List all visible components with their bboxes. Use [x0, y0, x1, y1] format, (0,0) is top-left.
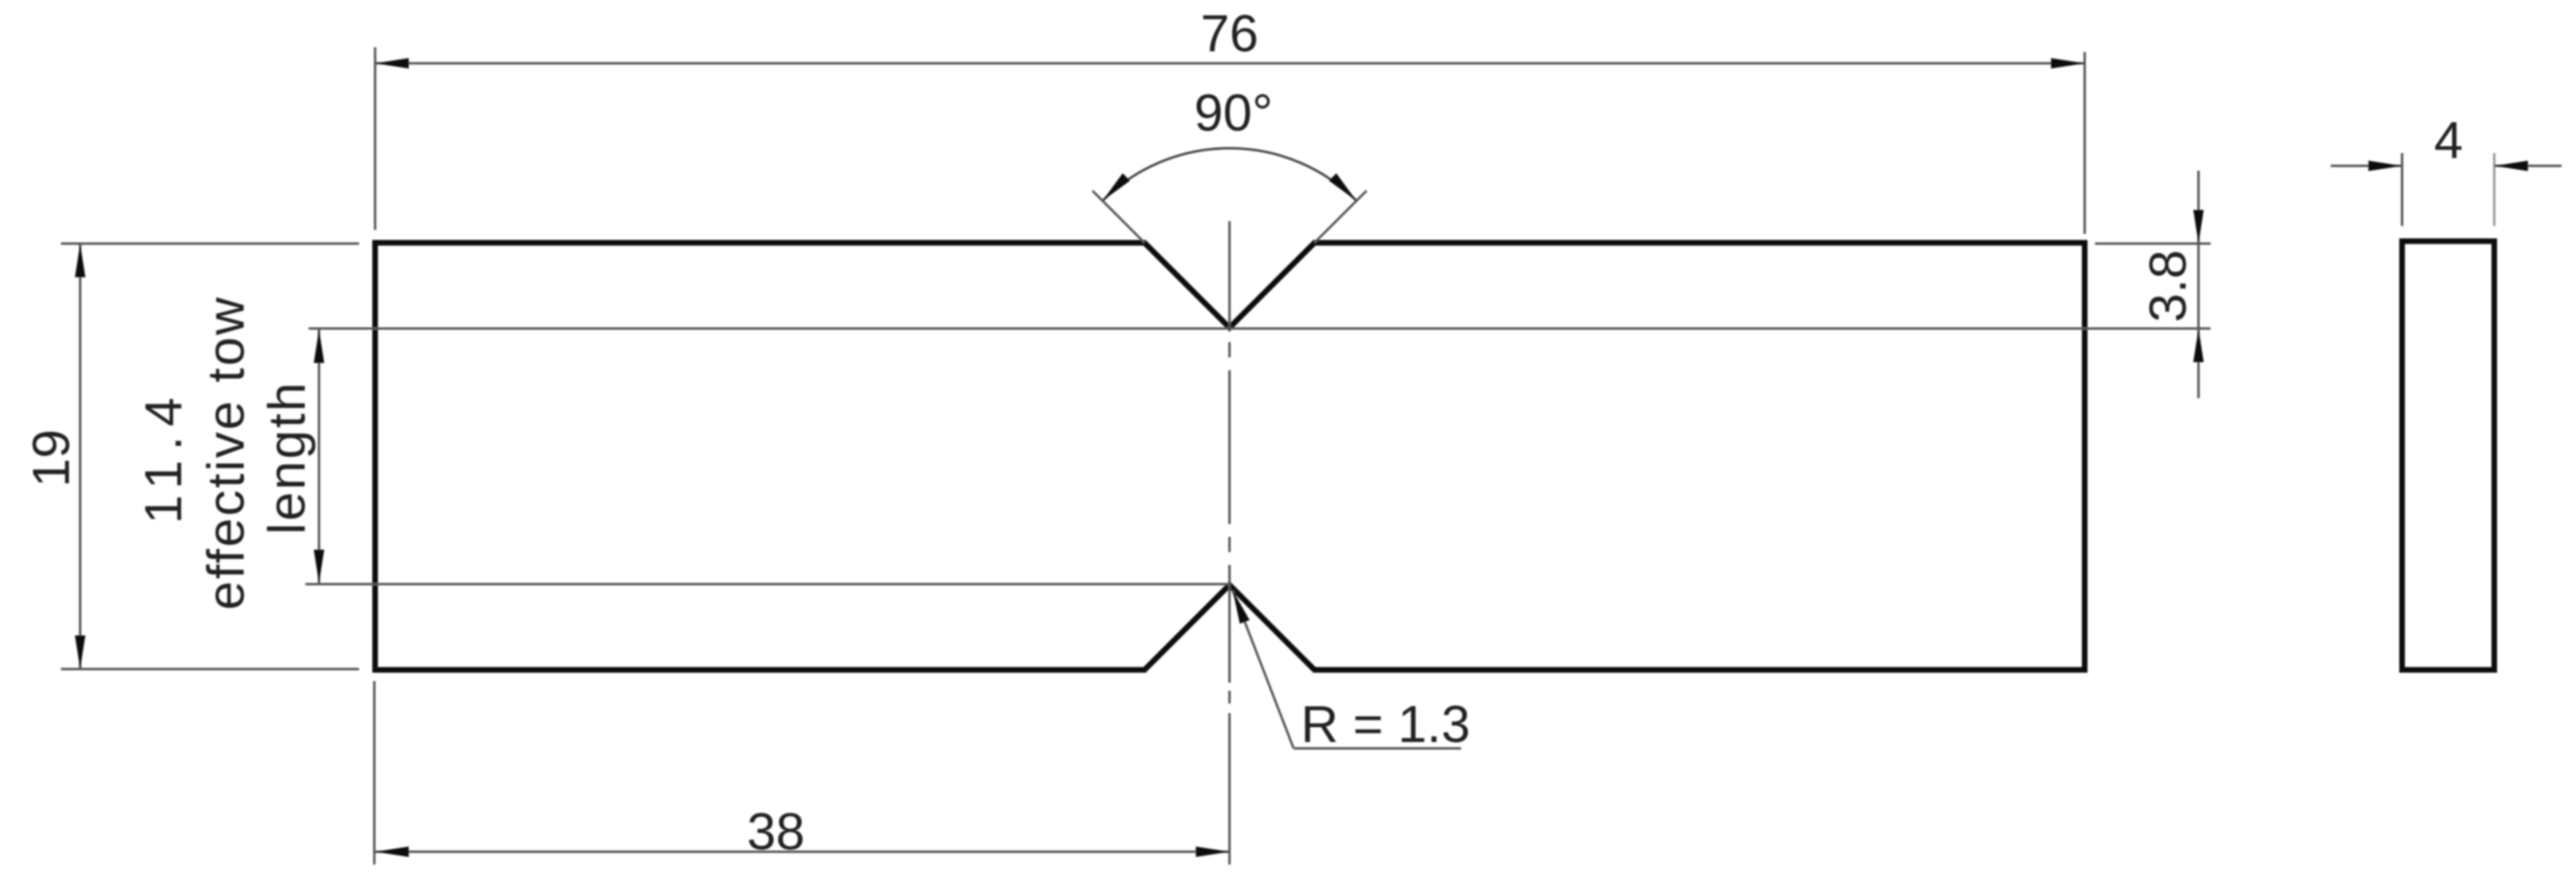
dimension 19 — [22, 244, 359, 669]
dimension 38 — [374, 681, 1229, 865]
dimension 3.8 — [2095, 171, 2211, 398]
svg-text:R = 1.3: R = 1.3 — [1301, 695, 1470, 753]
svg-text:76: 76 — [1201, 4, 1258, 62]
side view outline — [2402, 241, 2494, 670]
centerline (notch axis) — [1229, 221, 1231, 865]
svg-text:38: 38 — [747, 802, 805, 861]
extension line at top notch vertex level — [309, 328, 2211, 330]
svg-text:4: 4 — [2434, 111, 2463, 169]
svg-text:3.8: 3.8 — [2138, 250, 2197, 322]
svg-text:19: 19 — [22, 429, 80, 487]
svg-text:11.4: 11.4 — [134, 388, 192, 524]
dimension 4 (side view width) — [2331, 111, 2562, 226]
leader R = 1.3 — [1233, 591, 1470, 753]
dimension 90 degrees — [1092, 83, 1367, 243]
svg-text:90°: 90° — [1194, 83, 1273, 142]
svg-text:effective tow: effective tow — [196, 296, 255, 611]
svg-text:length: length — [257, 381, 316, 534]
front view outline — [375, 243, 2085, 670]
dimension 11.4 effective tow length — [134, 296, 325, 611]
extension line at bottom notch vertex level — [305, 583, 1229, 586]
dimension 76 — [375, 4, 2085, 234]
